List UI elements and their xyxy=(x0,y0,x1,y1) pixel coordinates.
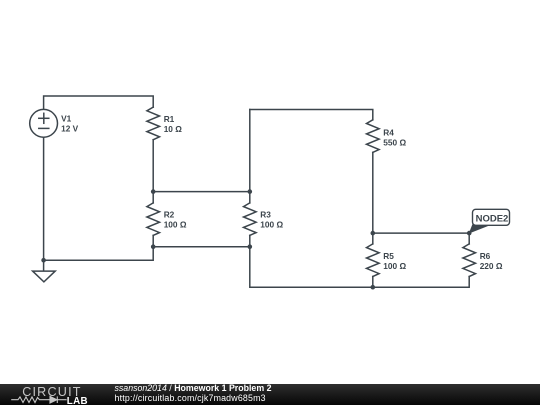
svg-text:R5: R5 xyxy=(383,251,394,261)
resistor R5 xyxy=(367,244,380,277)
footer title text xyxy=(115,383,272,403)
wire R5 top lead xyxy=(372,233,374,244)
junction node R1/R2 xyxy=(151,189,156,194)
label V1 value xyxy=(61,114,79,134)
label R5 value xyxy=(383,251,406,271)
svg-text:R3: R3 xyxy=(260,210,271,220)
footer bar xyxy=(0,384,540,405)
svg-text:10 Ω: 10 Ω xyxy=(164,124,183,134)
wire R5 bottom lead xyxy=(372,277,374,288)
junction node ground xyxy=(41,258,46,263)
ground xyxy=(33,260,56,282)
junction node R2 bottom xyxy=(151,244,156,249)
label R6 value xyxy=(480,251,503,271)
junction node R5 bottom xyxy=(371,285,376,290)
wire R6 top lead xyxy=(468,233,470,244)
svg-text:100 Ω: 100 Ω xyxy=(260,220,283,230)
resistor R1 xyxy=(147,107,160,140)
junction node R4/R5 xyxy=(371,231,376,236)
svg-text:R2: R2 xyxy=(164,210,175,220)
wire R1 bottom to mid node xyxy=(152,140,154,192)
svg-text:V1: V1 xyxy=(61,114,72,124)
svg-text:100 Ω: 100 Ω xyxy=(164,220,187,230)
svg-text:12 V: 12 V xyxy=(61,124,79,134)
wire mid rail node A xyxy=(153,191,250,193)
wire top-right rail R3 to R4 xyxy=(250,110,373,120)
resistor R4 xyxy=(367,120,380,153)
junction node R3 bottom xyxy=(248,244,253,249)
label R2 value xyxy=(164,210,187,230)
wire R2 top lead xyxy=(152,192,154,203)
node NODE2 flag xyxy=(469,209,510,233)
wire top-left rail V1 to R1 xyxy=(44,96,154,109)
junction node mid R3 xyxy=(248,189,253,194)
svg-text:R1: R1 xyxy=(164,114,175,124)
label R4 value xyxy=(383,128,406,148)
resistor R3 xyxy=(244,203,257,236)
wire R3 bottom lead xyxy=(249,235,251,246)
label R3 value xyxy=(260,210,283,230)
wire bottom rail R2 to R3 xyxy=(153,246,250,248)
resistor R6 xyxy=(463,244,476,277)
wire R2 bottom lead xyxy=(152,235,154,246)
resistor R2 xyxy=(147,203,160,236)
svg-text:R4: R4 xyxy=(383,128,394,138)
voltage source V1 xyxy=(30,109,58,137)
svg-text:R6: R6 xyxy=(480,251,491,261)
svg-text:220 Ω: 220 Ω xyxy=(480,261,503,271)
svg-text:550 Ω: 550 Ω xyxy=(383,138,406,148)
junction node NODE2 xyxy=(467,231,472,236)
wire bottom-right rail xyxy=(250,247,469,288)
wire R4 bottom to node row xyxy=(372,152,374,233)
svg-text:100 Ω: 100 Ω xyxy=(383,261,406,271)
svg-text:LAB: LAB xyxy=(67,396,88,405)
label R1 value xyxy=(164,114,183,134)
wire V1 bottom to ground rail xyxy=(44,137,154,260)
wire node row NODE2 xyxy=(373,232,469,234)
svg-text:NODE2: NODE2 xyxy=(476,214,509,225)
wire R3 column top xyxy=(249,110,251,203)
CircuitLab logo xyxy=(0,384,110,405)
